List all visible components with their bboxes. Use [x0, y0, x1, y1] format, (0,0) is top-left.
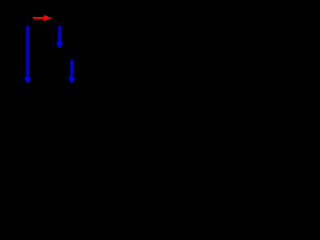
background: [0, 0, 100, 100]
blue arrow middle (short, pointing down): [57, 26, 63, 48]
blue arrow right (pointing down): [69, 60, 75, 84]
blue arrow left (long, pointing down): [25, 26, 31, 84]
red arrow (horizontal, pointing right): [33, 15, 52, 21]
